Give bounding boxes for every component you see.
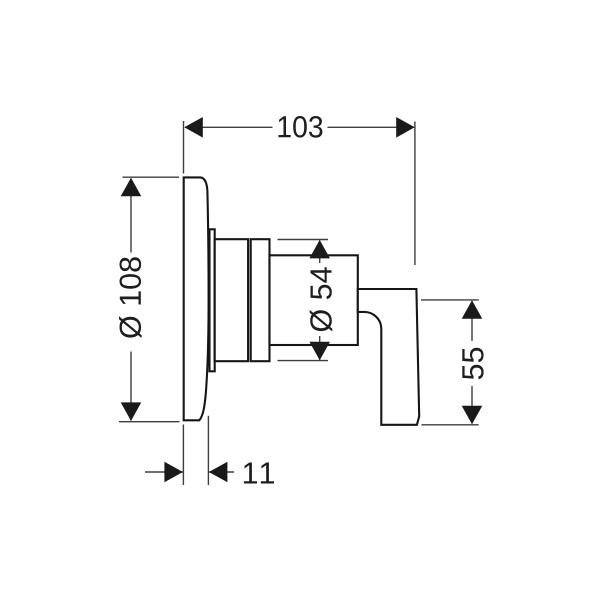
- dim O54: extension lines: [278, 239, 329, 241]
- O108 bottom arrow: [121, 402, 142, 421]
- dim 103: extension lines: [183, 121, 185, 174]
- O108 top arrow: [121, 178, 142, 197]
- lever handle: [358, 289, 419, 425]
- arrowheads: [121, 117, 483, 482]
- 11 left arrow: [164, 462, 183, 483]
- 11 right arrow: [209, 462, 228, 483]
- text 11: [244, 463, 274, 484]
- text 103: [279, 116, 323, 138]
- escutcheon plate: [184, 177, 209, 420]
- text O 108: [119, 257, 142, 338]
- dim 11: extension lines: [182, 425, 184, 486]
- dim 55: dimension line: [471, 302, 473, 342]
- O54 bottom arrow: [309, 342, 330, 361]
- hub cylinder: [270, 255, 358, 345]
- 103 left arrow: [184, 117, 203, 138]
- part outline group: [184, 177, 420, 424]
- dimension lines group: [119, 121, 479, 485]
- 55 top arrow: [462, 300, 483, 319]
- dim 11: dimension line tails: [145, 471, 183, 473]
- 103 right arrow: [396, 117, 415, 138]
- O54 top arrow: [309, 240, 330, 259]
- dimension texts (outlined Liberation Sans): [119, 116, 484, 484]
- dim O54: dimension line: [319, 241, 321, 264]
- text O 54: [310, 267, 333, 331]
- dim O108: dimension line: [130, 179, 132, 253]
- dim 55: extension lines: [421, 299, 479, 301]
- dim O108: extension lines: [123, 176, 180, 178]
- dim 103: dimension line: [185, 126, 273, 128]
- sleeve section 2: [251, 239, 270, 361]
- flange ring behind plate: [210, 229, 215, 371]
- text 55: [462, 348, 483, 379]
- sleeve section 1: [215, 239, 248, 361]
- 55 bottom arrow: [462, 406, 483, 425]
